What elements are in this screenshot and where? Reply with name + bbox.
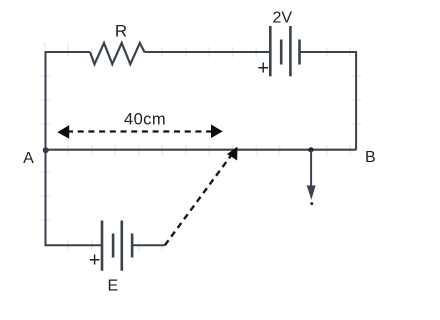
svg-text:A: A bbox=[23, 150, 34, 167]
battery 2V plate long left (+) bbox=[269, 26, 272, 76]
battery 2V plate short bbox=[280, 40, 283, 65]
galvanometer arrowhead down bbox=[307, 185, 316, 199]
galvanometer junction dot bbox=[308, 147, 313, 152]
40cm dashed arrow line bbox=[67, 130, 213, 132]
wire: top side, battery to right corner bbox=[300, 51, 358, 53]
battery E plate short bbox=[112, 234, 115, 258]
battery E plate long left (+) bbox=[101, 221, 104, 271]
wire: right vertical bbox=[355, 52, 357, 150]
wire: left vertical (top corner to bottom corner) bbox=[45, 51, 47, 245]
battery 2V plate short right (-) bbox=[298, 40, 301, 65]
wire: bottom side, left segment to battery E bbox=[45, 244, 103, 246]
battery 2V plate long bbox=[289, 26, 292, 76]
galvanometer lead down bbox=[310, 150, 312, 186]
svg-text:E: E bbox=[107, 277, 118, 294]
svg-text:+: + bbox=[257, 57, 269, 79]
wire: top side, left segment to resistor bbox=[45, 51, 91, 53]
wire: bottom side, battery to jockey lead bbox=[132, 244, 165, 246]
jockey arrowhead bbox=[227, 147, 237, 161]
40cm arrowhead right bbox=[211, 124, 223, 138]
wire: A to B horizontal bbox=[46, 149, 357, 151]
svg-text:2V: 2V bbox=[273, 9, 293, 26]
svg-text:+: + bbox=[89, 249, 101, 271]
svg-text:B: B bbox=[365, 149, 376, 166]
battery E plate short right (-) bbox=[131, 234, 134, 258]
battery E plate long bbox=[121, 221, 124, 271]
node A junction dot bbox=[43, 147, 49, 153]
svg-text:R: R bbox=[115, 22, 127, 41]
jockey dashed lead bbox=[165, 156, 231, 245]
svg-text:40cm: 40cm bbox=[124, 111, 166, 129]
40cm arrowhead left bbox=[57, 125, 69, 139]
wire: top side, segment resistor to battery 2V bbox=[145, 51, 270, 53]
resistor R bbox=[90, 43, 145, 64]
galvanometer tip dot bbox=[310, 202, 313, 205]
